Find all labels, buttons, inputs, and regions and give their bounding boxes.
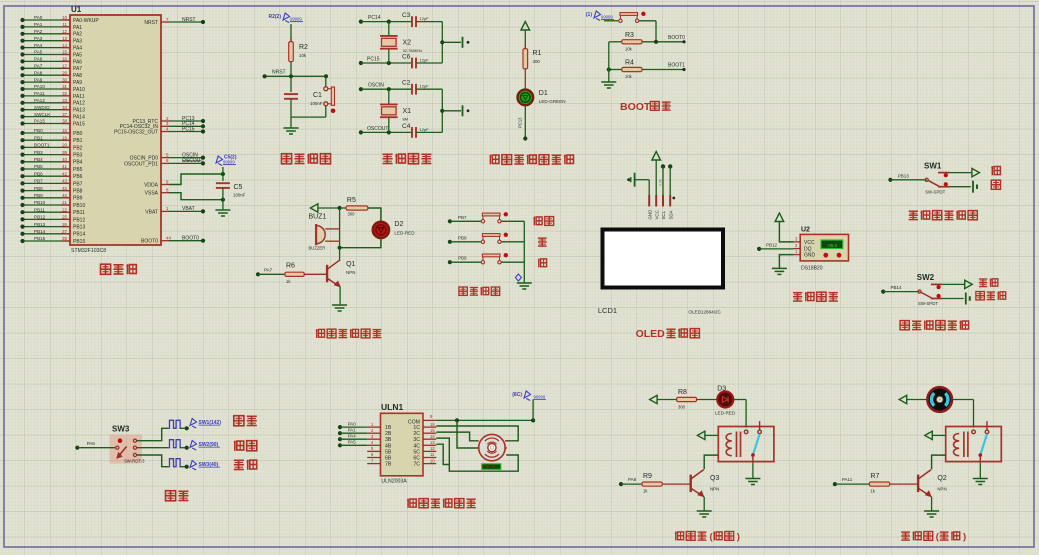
svg-text:R2(2): R2(2) xyxy=(268,14,281,20)
svg-text:PB3: PB3 xyxy=(73,153,83,159)
svg-text:PC14: PC14 xyxy=(368,15,381,21)
svg-text:PB9: PB9 xyxy=(34,193,43,198)
svg-text:PB0: PB0 xyxy=(73,131,83,137)
svg-text:PA8: PA8 xyxy=(628,477,637,482)
svg-text:LED-RED: LED-RED xyxy=(715,411,736,416)
svg-text:PB15: PB15 xyxy=(34,236,46,241)
svg-text:16: 16 xyxy=(430,422,435,427)
svg-text:PA7: PA7 xyxy=(73,66,82,72)
svg-text:BOOT1: BOOT1 xyxy=(668,63,685,69)
svg-text:R5: R5 xyxy=(347,197,356,204)
svg-text:17: 17 xyxy=(62,64,67,69)
svg-text:PB7: PB7 xyxy=(34,179,43,184)
svg-text:PC13: PC13 xyxy=(518,117,523,128)
svg-text:PB3: PB3 xyxy=(34,150,43,155)
svg-text:PA5: PA5 xyxy=(73,52,82,58)
svg-text:(1): (1) xyxy=(586,12,592,18)
svg-text:PB14: PB14 xyxy=(34,229,46,234)
svg-text:10: 10 xyxy=(430,458,435,463)
svg-text:C4: C4 xyxy=(402,123,411,130)
svg-text:12pF: 12pF xyxy=(420,58,430,63)
svg-text:PB13: PB13 xyxy=(898,173,910,178)
svg-text:31: 31 xyxy=(62,84,67,89)
svg-text:12: 12 xyxy=(430,446,435,451)
svg-text:PB4: PB4 xyxy=(73,160,83,166)
svg-text:30: 30 xyxy=(62,77,67,82)
svg-text:PB9: PB9 xyxy=(458,256,467,261)
svg-text:NPN: NPN xyxy=(710,487,719,492)
svg-text:PA11: PA11 xyxy=(34,91,45,96)
svg-text:21: 21 xyxy=(62,200,67,205)
svg-text:PA6: PA6 xyxy=(34,57,43,62)
svg-text:8M: 8M xyxy=(403,116,409,121)
svg-text:12pF: 12pF xyxy=(420,84,430,89)
svg-text:12pF: 12pF xyxy=(420,16,430,21)
svg-text:4C: 4C xyxy=(413,443,420,449)
svg-text:): ) xyxy=(963,532,966,543)
svg-text:SWCLK: SWCLK xyxy=(34,112,51,117)
svg-text:26: 26 xyxy=(62,222,67,227)
svg-text:PA9: PA9 xyxy=(73,80,82,86)
svg-text:PA0: PA0 xyxy=(348,421,357,426)
svg-text:Q1: Q1 xyxy=(346,261,355,268)
svg-text:BOOT0: BOOT0 xyxy=(668,35,685,41)
svg-text:R4: R4 xyxy=(625,60,634,67)
svg-text:PB12: PB12 xyxy=(34,215,46,220)
svg-text:4B: 4B xyxy=(385,443,392,449)
svg-text:25: 25 xyxy=(62,215,67,220)
svg-text:C1: C1 xyxy=(313,92,322,99)
svg-text:GND: GND xyxy=(647,210,652,220)
svg-text:99999: 99999 xyxy=(290,17,302,22)
svg-text:45: 45 xyxy=(62,186,67,191)
svg-text:PC15: PC15 xyxy=(182,126,195,132)
svg-text:SW2: SW2 xyxy=(917,273,935,282)
svg-text:1B: 1B xyxy=(385,425,392,431)
svg-text:99999: 99999 xyxy=(534,395,546,400)
svg-text:PB4: PB4 xyxy=(34,157,43,162)
svg-text:PA11: PA11 xyxy=(842,477,853,482)
svg-text:PB12: PB12 xyxy=(766,242,778,247)
svg-text:VBAT: VBAT xyxy=(145,209,158,215)
svg-text:PB8: PB8 xyxy=(73,189,83,195)
svg-text:BOOT: BOOT xyxy=(620,101,651,113)
svg-text:PA14: PA14 xyxy=(73,115,85,121)
svg-text:PA2: PA2 xyxy=(34,29,43,34)
svg-text:6B: 6B xyxy=(385,456,392,462)
svg-text:OSCIN: OSCIN xyxy=(368,83,384,89)
svg-text:PB0: PB0 xyxy=(34,128,43,133)
svg-text:PA2: PA2 xyxy=(73,32,82,38)
svg-text:0.96: 0.96 xyxy=(659,179,663,186)
svg-text:PB7: PB7 xyxy=(73,181,83,187)
svg-text:27: 27 xyxy=(62,229,67,234)
svg-text:D2: D2 xyxy=(394,221,403,228)
svg-text:PA4: PA4 xyxy=(34,43,43,48)
svg-text:STM32F103C8: STM32F103C8 xyxy=(71,248,106,254)
svg-text:14: 14 xyxy=(430,434,435,439)
svg-text:BUZ1: BUZ1 xyxy=(309,213,327,220)
svg-text:LCD1: LCD1 xyxy=(598,306,617,315)
svg-text:PA1: PA1 xyxy=(34,22,43,27)
svg-text:PA1: PA1 xyxy=(348,427,357,432)
svg-text:PB10: PB10 xyxy=(34,200,46,205)
svg-text:PA0-WKUP: PA0-WKUP xyxy=(73,18,99,24)
svg-text:39: 39 xyxy=(62,150,67,155)
svg-text:PB5: PB5 xyxy=(34,164,43,169)
svg-text:PA15: PA15 xyxy=(73,121,85,127)
svg-text:33: 33 xyxy=(62,98,67,103)
svg-text:OLED: OLED xyxy=(636,328,666,340)
svg-text:VCC: VCC xyxy=(804,240,815,246)
svg-text:GND: GND xyxy=(804,253,816,259)
svg-text:PB1: PB1 xyxy=(34,135,43,140)
svg-text:PB12: PB12 xyxy=(73,217,85,223)
svg-text:PA15: PA15 xyxy=(34,119,45,124)
svg-text:SW-SPDT: SW-SPDT xyxy=(925,189,945,194)
svg-text:32: 32 xyxy=(62,91,67,96)
svg-text:PB7: PB7 xyxy=(458,215,467,220)
svg-text:46: 46 xyxy=(62,193,67,198)
svg-text:ULN2003A: ULN2003A xyxy=(381,479,407,485)
svg-text:LED-GREEN: LED-GREEN xyxy=(539,99,566,104)
svg-text:10k: 10k xyxy=(625,74,633,79)
svg-text:37: 37 xyxy=(62,112,67,117)
svg-text:PA4: PA4 xyxy=(73,46,82,52)
svg-text:PA8: PA8 xyxy=(34,70,43,75)
svg-text:38: 38 xyxy=(62,119,67,124)
svg-text:R9: R9 xyxy=(643,473,652,480)
svg-text:12: 12 xyxy=(62,29,67,34)
svg-text:PA9: PA9 xyxy=(34,77,43,82)
svg-text:PB2: PB2 xyxy=(73,145,83,151)
svg-text:PA6: PA6 xyxy=(73,59,82,65)
svg-text:99999: 99999 xyxy=(223,160,235,165)
svg-text:10: 10 xyxy=(62,15,67,20)
svg-text:PB6: PB6 xyxy=(34,171,43,176)
svg-text:PB5: PB5 xyxy=(73,167,83,173)
svg-text:PA13: PA13 xyxy=(73,108,85,114)
svg-text:PC15: PC15 xyxy=(367,56,380,62)
svg-text:PA11: PA11 xyxy=(73,94,85,100)
svg-text:-25.0: -25.0 xyxy=(827,243,838,248)
svg-text:7C: 7C xyxy=(413,462,420,468)
svg-text:D1: D1 xyxy=(539,90,548,97)
svg-text:PA0: PA0 xyxy=(34,15,43,20)
svg-text:Q2: Q2 xyxy=(937,475,946,482)
svg-text:): ) xyxy=(737,532,740,543)
svg-text:PB13: PB13 xyxy=(73,225,85,231)
svg-text:PB14: PB14 xyxy=(891,285,903,290)
svg-text:SCL: SCL xyxy=(661,210,666,219)
svg-text:3C: 3C xyxy=(413,437,420,443)
svg-text:PA4: PA4 xyxy=(348,433,357,438)
svg-text:SWDIO: SWDIO xyxy=(34,105,50,110)
svg-text:42: 42 xyxy=(62,171,67,176)
svg-text:PB13: PB13 xyxy=(34,222,46,227)
svg-text:SW-SPDT: SW-SPDT xyxy=(918,301,938,306)
svg-text:D3: D3 xyxy=(717,386,726,393)
svg-text:PA12: PA12 xyxy=(34,98,45,103)
svg-text:10k: 10k xyxy=(299,53,307,58)
svg-text:19: 19 xyxy=(62,135,67,140)
svg-text:14: 14 xyxy=(62,43,67,48)
svg-text:13: 13 xyxy=(62,36,67,41)
svg-text:20: 20 xyxy=(62,143,67,148)
svg-text:PA3: PA3 xyxy=(34,36,43,41)
svg-text:PA12: PA12 xyxy=(73,101,85,107)
svg-text:PB9: PB9 xyxy=(73,196,83,202)
svg-text:PB14: PB14 xyxy=(73,232,85,238)
svg-text:X2: X2 xyxy=(403,39,412,46)
svg-text:VDDA: VDDA xyxy=(144,182,159,188)
svg-text:300: 300 xyxy=(533,59,541,64)
svg-text:PB8: PB8 xyxy=(458,235,467,240)
svg-text:15: 15 xyxy=(62,50,67,55)
svg-text:300: 300 xyxy=(348,212,356,217)
svg-text:5B: 5B xyxy=(385,449,392,455)
svg-text:40: 40 xyxy=(62,157,67,162)
svg-text:PB11: PB11 xyxy=(34,207,45,212)
svg-text:NRST: NRST xyxy=(182,17,196,23)
svg-text:100nF: 100nF xyxy=(310,101,323,106)
svg-text:5C: 5C xyxy=(413,449,420,455)
svg-text:12pF: 12pF xyxy=(420,127,430,132)
svg-text:PA3: PA3 xyxy=(73,39,82,45)
svg-text:PB8: PB8 xyxy=(34,186,43,191)
svg-text:29: 29 xyxy=(62,70,67,75)
svg-text:44: 44 xyxy=(166,236,171,241)
svg-text:100nF: 100nF xyxy=(233,193,246,198)
svg-text:PB1: PB1 xyxy=(73,138,83,144)
svg-text:15: 15 xyxy=(430,428,435,433)
svg-text:PA5: PA5 xyxy=(348,440,357,445)
svg-text:LED-RED: LED-RED xyxy=(394,231,415,236)
svg-text:PA7: PA7 xyxy=(264,268,273,273)
svg-text:R8: R8 xyxy=(678,389,687,396)
svg-text:R1: R1 xyxy=(533,50,542,57)
svg-text:PB10: PB10 xyxy=(73,203,85,209)
svg-text:VCC: VCC xyxy=(654,210,659,219)
svg-text:41: 41 xyxy=(62,164,67,169)
svg-text:NRST: NRST xyxy=(272,70,286,76)
svg-text:PB6: PB6 xyxy=(73,174,83,180)
svg-text:OSCOUT: OSCOUT xyxy=(367,126,388,132)
svg-text:300: 300 xyxy=(678,405,686,410)
svg-text:(8C): (8C) xyxy=(512,392,522,398)
svg-text:SW3: SW3 xyxy=(112,425,130,434)
svg-text:6C: 6C xyxy=(413,456,420,462)
svg-text:NPN: NPN xyxy=(346,270,355,275)
svg-text:3B: 3B xyxy=(385,437,392,443)
svg-text:18: 18 xyxy=(62,128,67,133)
svg-text:X1: X1 xyxy=(403,108,412,115)
svg-text:PA10: PA10 xyxy=(73,87,85,93)
svg-text:16: 16 xyxy=(62,57,67,62)
svg-text:PB11: PB11 xyxy=(73,210,85,216)
svg-text:PA6: PA6 xyxy=(87,441,96,446)
svg-text:DS18B20: DS18B20 xyxy=(801,266,823,272)
svg-text:R3: R3 xyxy=(625,32,634,39)
svg-text:BUZZER: BUZZER xyxy=(309,246,326,251)
svg-text:C6: C6 xyxy=(402,54,411,61)
svg-text:SW1: SW1 xyxy=(924,161,942,170)
svg-text:PA1: PA1 xyxy=(73,25,82,31)
svg-text:34: 34 xyxy=(62,105,67,110)
svg-text:10k: 10k xyxy=(625,47,633,52)
svg-text:1C: 1C xyxy=(413,425,420,431)
svg-text:PA5: PA5 xyxy=(34,50,43,55)
svg-text:OSCOUT_PD1: OSCOUT_PD1 xyxy=(124,161,158,167)
svg-text:NPN: NPN xyxy=(937,487,946,492)
svg-text:NRST: NRST xyxy=(144,20,158,26)
svg-text:BOOT0: BOOT0 xyxy=(141,239,158,245)
svg-text:22: 22 xyxy=(62,207,67,212)
svg-text:PA8: PA8 xyxy=(73,73,82,79)
svg-text:43: 43 xyxy=(62,179,67,184)
svg-text:SDA: SDA xyxy=(668,210,673,219)
svg-text:C2: C2 xyxy=(402,80,411,87)
svg-text:32.768KHz: 32.768KHz xyxy=(403,48,423,53)
svg-text:7B: 7B xyxy=(385,462,392,468)
svg-text:BOOT1: BOOT1 xyxy=(34,143,50,148)
svg-text:VBAT: VBAT xyxy=(182,206,195,212)
svg-text:28: 28 xyxy=(62,236,67,241)
svg-text:R7: R7 xyxy=(870,473,879,480)
svg-text:99999: 99999 xyxy=(601,15,613,20)
svg-text:C3: C3 xyxy=(402,12,411,19)
svg-text:R6: R6 xyxy=(286,263,295,270)
svg-text:OLED12864I2C: OLED12864I2C xyxy=(688,310,721,315)
svg-text:VSSA: VSSA xyxy=(145,191,159,197)
svg-text:C5: C5 xyxy=(234,184,243,191)
svg-text:R2: R2 xyxy=(299,44,308,51)
svg-text:ULN1: ULN1 xyxy=(381,402,403,412)
svg-text:U1: U1 xyxy=(71,5,82,14)
svg-text:13: 13 xyxy=(430,440,435,445)
svg-text:SW-ROT-3: SW-ROT-3 xyxy=(124,459,145,464)
svg-text:U2: U2 xyxy=(801,227,810,234)
svg-text:Q3: Q3 xyxy=(710,475,719,482)
svg-text:PB15: PB15 xyxy=(73,239,85,245)
svg-text:PA7: PA7 xyxy=(34,64,43,69)
svg-text:11: 11 xyxy=(430,452,435,457)
svg-text:PA10: PA10 xyxy=(34,84,45,89)
svg-text:11: 11 xyxy=(62,22,67,27)
svg-text:BOOT0: BOOT0 xyxy=(182,236,199,242)
svg-text:PC15-OSC32_OUT: PC15-OSC32_OUT xyxy=(114,129,158,135)
